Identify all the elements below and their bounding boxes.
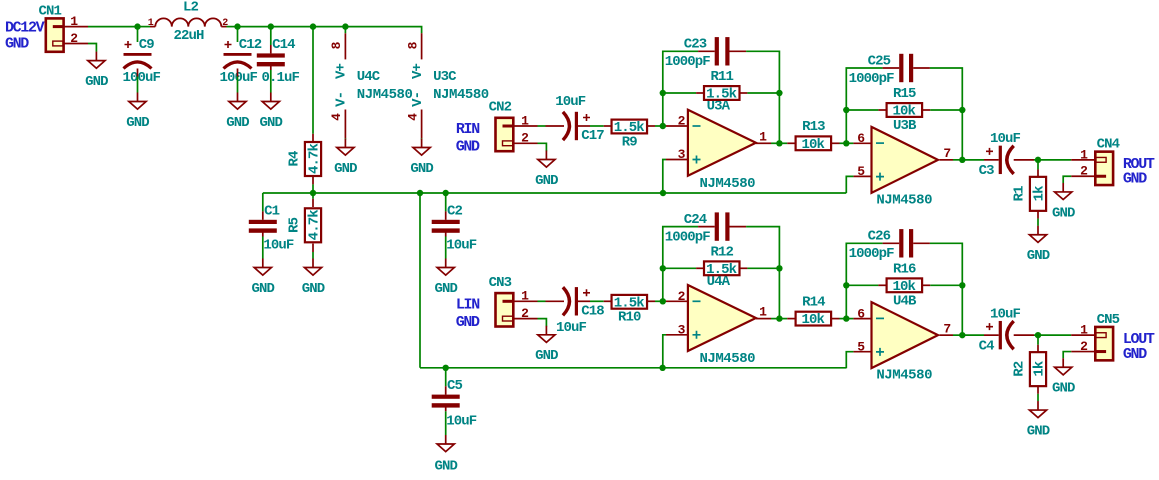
svg-text:GND: GND (535, 173, 558, 189)
junction at output node (1035, 332, 1041, 338)
junction feedback left R15 (843, 107, 849, 113)
pin 6 of U3B (857, 131, 865, 146)
svg-text:10uF: 10uF (446, 237, 477, 253)
svg-text:CN2: CN2 (489, 100, 512, 116)
svg-text:NJM4580: NJM4580 (699, 176, 755, 192)
capacitor C3 (979, 131, 1021, 179)
svg-text:GND: GND (456, 314, 480, 331)
op-amp U3B (872, 118, 939, 208)
svg-text:RIN: RIN (456, 121, 480, 138)
wire C14 to ground (270, 66, 272, 93)
pin 2 of U3A (678, 114, 686, 129)
pin 2 of CN5 (1071, 339, 1095, 354)
capacitor C26 (849, 229, 930, 263)
svg-text:8: 8 (329, 41, 344, 49)
svg-text:R9: R9 (622, 134, 638, 150)
junction lower bias at U4A pin3 (659, 365, 665, 371)
wire C4 to output node (1014, 334, 1038, 336)
connector CN2 (489, 100, 514, 152)
junction V+ at C9 (134, 23, 140, 29)
wire C23 to right branch (746, 51, 779, 93)
svg-text:1: 1 (759, 129, 767, 144)
wire U3B output (940, 159, 963, 161)
capacitor C14 (257, 37, 300, 86)
svg-text:C2: C2 (447, 203, 463, 219)
svg-text:1k: 1k (1031, 186, 1047, 202)
svg-text:6: 6 (857, 131, 865, 146)
wire R1 to ground (1037, 219, 1039, 226)
op-amp U4C power pins (329, 33, 412, 138)
svg-text:C5: C5 (447, 378, 463, 394)
svg-text:R13: R13 (802, 119, 825, 135)
svg-text:C4: C4 (979, 338, 995, 354)
svg-text:GND: GND (434, 458, 457, 474)
wire U3A pin2 to feedback (662, 93, 664, 126)
svg-text:1: 1 (148, 18, 154, 29)
svg-text:10uF: 10uF (555, 94, 586, 110)
ground at C2 (434, 259, 457, 297)
resistor R9 (604, 120, 655, 151)
pin 1 of U4A (759, 305, 767, 320)
wire U4A pin3 to bias rail (663, 335, 688, 369)
wire bias rail to C2 (445, 193, 447, 211)
svg-text:CN3: CN3 (489, 275, 512, 291)
svg-text:NJM4580: NJM4580 (699, 351, 755, 367)
svg-text:GND: GND (126, 115, 149, 131)
svg-text:GND: GND (1123, 171, 1147, 188)
pin 3 of U3A (678, 147, 686, 162)
svg-text:NJM4580: NJM4580 (876, 368, 932, 384)
connector CN4 (1095, 136, 1119, 185)
wire to U4B pin6 (846, 318, 871, 320)
svg-text:22uH: 22uH (173, 28, 204, 44)
op-amp U3A (688, 99, 756, 192)
ground at R5 (302, 259, 325, 297)
svg-text:V+: V+ (334, 64, 350, 80)
connector CN1 (39, 4, 64, 52)
wire C14 node to R4 branch (271, 26, 313, 28)
ground at R1 (1027, 226, 1050, 264)
wire R2 to ground (1037, 394, 1039, 401)
ground at CN4 pin2 (1052, 183, 1075, 221)
wire C17 to R9 (578, 125, 604, 127)
capacitor C2 (432, 203, 477, 253)
junction at U3B output (959, 157, 965, 163)
svg-text:1.5k: 1.5k (706, 262, 737, 278)
svg-text:GND: GND (334, 161, 357, 177)
wire C12 node to C14 node (238, 26, 271, 28)
svg-text:GND: GND (410, 161, 433, 177)
wire V+ to U4C pin8 (344, 27, 346, 34)
pin 2 of L2 (222, 18, 228, 29)
svg-text:C26: C26 (868, 229, 891, 245)
svg-text:1.5k: 1.5k (706, 86, 737, 102)
svg-text:10uF: 10uF (990, 131, 1021, 147)
pin 2 of CN2 (513, 131, 537, 146)
wire CN3 pin2 to ground (538, 319, 547, 327)
junction feedback left R16 (843, 282, 849, 288)
svg-text:7: 7 (943, 146, 950, 161)
wire R10 to U4A pin2 (655, 300, 688, 302)
ground at C9 (126, 93, 149, 131)
wire U4A pin2 to feedback (662, 268, 664, 301)
wire U4B pin5 to bias rail (846, 352, 871, 369)
svg-text:8: 8 (405, 41, 420, 49)
svg-text:C24: C24 (684, 212, 707, 228)
junction at output node (1035, 157, 1041, 163)
ground at U3C (410, 139, 433, 177)
resistor R16 (846, 261, 962, 294)
junction lower bias at C5 (443, 365, 449, 371)
wire U3B pin5 to bias rail (846, 176, 871, 193)
pin 1 of CN2 (513, 113, 537, 128)
svg-text:0.1uF: 0.1uF (262, 70, 300, 86)
capacitor C4 (979, 306, 1021, 354)
svg-text:R1: R1 (1011, 186, 1027, 202)
svg-text:R12: R12 (710, 244, 733, 260)
pin 1 of CN3 (513, 289, 537, 304)
svg-text:C25: C25 (868, 53, 891, 69)
wire feedback left up (663, 51, 698, 93)
net label GND at CN2 (456, 139, 480, 156)
wire output node to CN4 (1038, 159, 1071, 161)
wire U4B pin6 to feedback (845, 285, 847, 318)
wire C2 to ground (445, 232, 447, 258)
svg-text:GND: GND (434, 281, 457, 297)
wire junction to C9 (137, 27, 139, 42)
wire feedback B left up (846, 243, 882, 285)
wire junction to C12 (237, 27, 239, 42)
wire U3B pin6 to feedback (845, 110, 847, 143)
svg-text:10k: 10k (801, 137, 824, 153)
wire U4C to U3C (345, 27, 421, 34)
capacitor C18 (556, 287, 604, 336)
capacitor C1 (249, 203, 294, 253)
svg-text:C18: C18 (581, 304, 604, 320)
wire U4A output (756, 318, 780, 320)
svg-text:10uF: 10uF (556, 320, 587, 336)
capacitor C17 (555, 94, 604, 144)
connector CN5 (1095, 312, 1119, 361)
junction bias at R4/R5 (310, 190, 316, 196)
svg-text:R10: R10 (618, 310, 641, 326)
wire output node to CN5 (1038, 334, 1071, 336)
svg-text:10k: 10k (892, 103, 915, 119)
wire CN5 pin2 to ground (1063, 352, 1071, 359)
wire lower bias rail (420, 367, 846, 369)
junction bias at channel branch (417, 190, 423, 196)
junction feedback right R12 (776, 265, 782, 271)
capacitor C25 (849, 53, 930, 87)
wire R4 to bias rail (312, 184, 314, 193)
ground at C5 (434, 435, 457, 474)
svg-text:NJM4580: NJM4580 (433, 87, 489, 103)
wire junction to C14 (270, 27, 272, 45)
pin 1 of L2 (148, 18, 154, 29)
pin 7 of U4B (943, 321, 950, 336)
capacitor C12 (220, 37, 262, 86)
wire CN1 pin2 to ground (88, 44, 96, 52)
junction at U4A pin2 (660, 298, 666, 304)
wire R9 to U3A pin2 (655, 125, 688, 127)
svg-text:GND: GND (1123, 346, 1147, 363)
svg-text:GND: GND (302, 281, 325, 297)
wire C5 to ground (445, 407, 447, 435)
resistor R11 (663, 69, 780, 102)
junction V+ at R4 branch (310, 23, 316, 29)
capacitor C9 (123, 37, 161, 86)
svg-text:R16: R16 (893, 261, 916, 277)
wire bias rail to C1 (262, 193, 264, 211)
wire U3A output (756, 142, 780, 144)
ground at C12 (226, 93, 249, 131)
junction at U3A output (776, 140, 782, 146)
junction at U4A output (776, 315, 782, 321)
junction V+ at C12 (234, 23, 240, 29)
svg-text:GND: GND (456, 139, 480, 156)
svg-text:10uF: 10uF (446, 413, 477, 429)
svg-text:1000pF: 1000pF (665, 229, 711, 245)
ground at CN5 pin2 (1052, 358, 1075, 396)
wire lower rail to C5 (445, 368, 447, 386)
junction at U3B pin6 (843, 140, 849, 146)
net label GND at CN3 (456, 314, 480, 331)
resistor R13 (779, 119, 846, 153)
pin 2 of CN4 (1071, 164, 1095, 179)
wire U4B output to C4 (962, 334, 998, 336)
svg-text:4: 4 (405, 113, 420, 121)
op-amp U4A (688, 274, 756, 367)
svg-text:1k: 1k (1031, 361, 1047, 377)
pin 5 of U4B (857, 339, 865, 354)
net label DC12V (5, 19, 45, 36)
pin 5 of U3B (857, 164, 865, 179)
svg-text:1: 1 (759, 305, 767, 320)
wire feedback B right to output (961, 285, 963, 335)
svg-text:2: 2 (222, 18, 228, 29)
svg-text:U4C: U4C (357, 69, 381, 85)
wire C25 to right branch (930, 68, 962, 110)
svg-text:DC12V: DC12V (5, 19, 45, 36)
pin 2 of U4A (678, 289, 686, 304)
junction at U3A pin2 (660, 123, 666, 129)
svg-text:R4: R4 (286, 151, 302, 167)
ground at C14 (260, 93, 283, 131)
net label ROUT (1123, 156, 1155, 173)
wire C18 to R10 (578, 300, 604, 302)
pin 6 of U4B (857, 306, 865, 321)
svg-text:R2: R2 (1011, 361, 1027, 377)
inductor L2 (150, 0, 227, 44)
wire feedback B left up (846, 68, 882, 110)
wire feedback right to output (778, 268, 780, 318)
ground at CN1 pin2 (85, 52, 108, 90)
junction bias at C2 (443, 190, 449, 196)
junction feedback left R11 (660, 90, 666, 96)
junction feedback right R16 (959, 282, 965, 288)
svg-text:NJM4580: NJM4580 (357, 87, 413, 103)
pin 1 of CN5 (1071, 323, 1095, 338)
pin 1 of CN4 (1071, 147, 1095, 162)
svg-text:GND: GND (535, 348, 558, 364)
svg-text:100uF: 100uF (220, 70, 258, 86)
resistor R10 (604, 295, 655, 326)
svg-text:C1: C1 (264, 203, 280, 219)
op-amp U3C power pins (405, 33, 488, 138)
ground at CN2 pin2 (535, 151, 558, 189)
svg-text:4.7k: 4.7k (306, 144, 322, 175)
svg-text:CN1: CN1 (39, 4, 62, 20)
resistor R1 (1011, 160, 1047, 219)
wire C9 to ground (137, 69, 139, 93)
wire R5 to ground (312, 252, 314, 259)
pin 2 of CN3 (513, 306, 537, 321)
wire C12 to ground (237, 69, 239, 93)
ground at U4C (334, 139, 357, 177)
wire CN2 pin1 to C17 (538, 125, 565, 127)
wire CN1 pin1 to junction (88, 26, 138, 28)
pin 7 of U3B (943, 146, 950, 161)
wire C1 to ground (262, 232, 264, 258)
junction at U4B pin6 (843, 315, 849, 321)
wire U3C pin4 to ground (421, 138, 423, 139)
svg-text:NJM4580: NJM4580 (876, 192, 932, 208)
wire C24 to right branch (746, 227, 779, 269)
svg-text:GND: GND (1052, 205, 1075, 221)
capacitor C24 (665, 212, 746, 246)
resistor R14 (779, 294, 846, 328)
pin 2 of CN1 (64, 31, 89, 46)
svg-text:C3: C3 (979, 163, 995, 179)
junction feedback right R15 (959, 107, 965, 113)
wire bias branch to lower rail (419, 193, 421, 368)
svg-text:GND: GND (1052, 381, 1075, 397)
wire U4B output (940, 334, 963, 336)
wire U3A pin3 to bias rail (663, 160, 688, 194)
resistor R2 (1011, 335, 1047, 394)
svg-text:CN4: CN4 (1097, 136, 1120, 152)
svg-text:10uF: 10uF (263, 237, 294, 253)
svg-text:U3B: U3B (893, 118, 917, 134)
svg-text:LIN: LIN (456, 297, 480, 314)
svg-text:GND: GND (1027, 248, 1050, 264)
svg-text:V+: V+ (410, 64, 426, 80)
wire to U3B pin6 (846, 142, 871, 144)
svg-text:GND: GND (226, 115, 249, 131)
junction feedback left R12 (660, 265, 666, 271)
svg-text:R14: R14 (802, 294, 825, 310)
resistor R12 (663, 244, 780, 277)
junction V+ at U4C (342, 23, 348, 29)
op-amp U4B (872, 294, 939, 384)
junction V+ at C14 (268, 23, 274, 29)
wire feedback right to output (778, 93, 780, 143)
svg-text:1000pF: 1000pF (849, 71, 895, 87)
wire bias rail (263, 192, 847, 194)
wire C3 to output node (1014, 159, 1038, 161)
wire CN2 pin2 to ground (538, 143, 547, 151)
net label GND at CN1 (5, 36, 29, 53)
net label GND at CN4 (1123, 171, 1147, 188)
pin 1 of U3A (759, 129, 767, 144)
svg-text:4: 4 (329, 113, 344, 121)
svg-text:R15: R15 (893, 86, 916, 102)
svg-text:C12: C12 (239, 37, 262, 53)
wire U4C pin4 to ground (344, 138, 346, 139)
junction feedback right R11 (776, 90, 782, 96)
svg-text:U3C: U3C (433, 69, 457, 85)
capacitor C5 (432, 378, 477, 429)
svg-text:L2: L2 (183, 0, 199, 16)
connector CN3 (489, 275, 514, 327)
svg-text:V-: V- (334, 92, 350, 107)
wire U3B output to C3 (962, 159, 998, 161)
svg-text:GND: GND (85, 74, 108, 90)
svg-text:1000pF: 1000pF (665, 54, 711, 70)
svg-text:R11: R11 (710, 69, 733, 85)
capacitor C23 (665, 37, 746, 71)
svg-text:R5: R5 (286, 217, 302, 233)
svg-text:2: 2 (678, 114, 686, 129)
resistor R5 (286, 193, 322, 252)
wire R4 branch to U4C (313, 26, 345, 28)
svg-text:GND: GND (5, 36, 29, 53)
svg-text:6: 6 (857, 306, 865, 321)
junction bias at U3A pin3 (660, 190, 666, 196)
wire V+ to R4 (312, 27, 314, 134)
svg-text:GND: GND (260, 115, 283, 131)
svg-text:10uF: 10uF (990, 306, 1021, 322)
svg-text:C9: C9 (139, 37, 155, 53)
wire C26 to right branch (930, 243, 962, 285)
svg-text:V-: V- (410, 92, 426, 107)
ground at R2 (1027, 401, 1050, 439)
svg-text:7: 7 (943, 321, 950, 336)
svg-text:4.7k: 4.7k (306, 210, 322, 241)
svg-text:C14: C14 (272, 37, 295, 53)
net label RIN (456, 121, 480, 138)
wire feedback B right to output (961, 110, 963, 160)
junction at U4B output (959, 332, 965, 338)
ground at CN3 pin2 (535, 326, 558, 364)
wire feedback left up (663, 227, 698, 269)
svg-text:GND: GND (252, 281, 275, 297)
ground at C1 (252, 259, 275, 297)
net label LIN (456, 297, 480, 314)
net label GND at CN5 (1123, 346, 1147, 363)
wire CN4 pin2 to ground (1063, 176, 1071, 183)
net label LOUT (1123, 331, 1155, 348)
wire CN3 pin1 to C18 (538, 300, 565, 302)
wire L2 to C12 node (227, 26, 238, 28)
svg-text:U4B: U4B (893, 294, 917, 310)
svg-text:CN5: CN5 (1097, 312, 1120, 328)
wire junction to L2 (138, 26, 151, 28)
svg-text:2: 2 (678, 289, 686, 304)
svg-text:GND: GND (1027, 423, 1050, 439)
svg-text:10k: 10k (801, 312, 824, 328)
svg-text:C23: C23 (684, 37, 707, 53)
svg-text:10k: 10k (892, 279, 915, 295)
svg-text:1000pF: 1000pF (849, 246, 895, 262)
pin 3 of U4A (678, 323, 686, 338)
resistor R4 (286, 134, 322, 185)
resistor R15 (846, 86, 962, 119)
svg-text:C17: C17 (581, 128, 604, 144)
pin 1 of CN1 (64, 14, 89, 29)
svg-text:100uF: 100uF (123, 70, 161, 86)
